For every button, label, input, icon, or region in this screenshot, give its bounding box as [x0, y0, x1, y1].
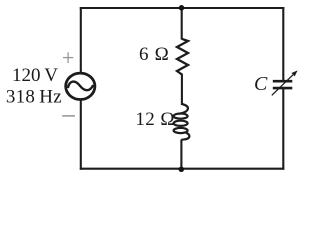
wire left — [80, 7, 82, 170]
svg-text:12 Ω: 12 Ω — [135, 109, 174, 130]
wire bottom — [80, 168, 284, 170]
capacitor plate top — [273, 80, 293, 83]
source sine wave — [68, 82, 93, 91]
wire right lower — [282, 88, 284, 170]
svg-text:6 Ω: 6 Ω — [139, 44, 169, 65]
resistor 6ohm zigzag — [177, 39, 188, 75]
wire top — [80, 7, 284, 9]
capacitor plate bottom — [273, 87, 293, 90]
wire middle lower — [180, 140, 182, 169]
wire right upper — [282, 7, 284, 81]
plus sign — [63, 52, 73, 63]
minus sign — [62, 115, 75, 117]
inductor 12ohm coil — [174, 104, 190, 140]
wire middle upper — [181, 8, 183, 40]
svg-text:120 V: 120 V — [12, 65, 58, 86]
node junction bottom — [179, 167, 185, 173]
wire middle between R and L — [181, 74, 183, 106]
svg-text:318 Hz: 318 Hz — [6, 86, 62, 107]
node junction top — [179, 5, 185, 11]
svg-text:C: C — [254, 73, 268, 95]
capacitor variable arrow — [272, 75, 293, 96]
source circle V — [66, 73, 95, 99]
